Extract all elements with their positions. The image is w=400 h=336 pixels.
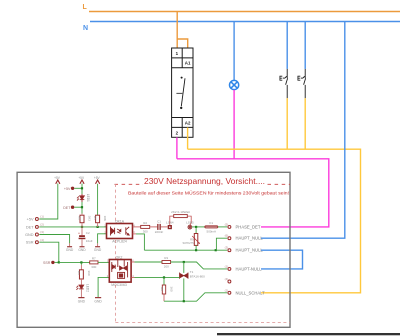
- svg-text:LED2: LED2: [85, 284, 89, 292]
- wire +5V pin to supply: [39, 184, 58, 220]
- switch S2 (taster E): [301, 69, 306, 98]
- svg-text:BTA16-800: BTA16-800: [190, 274, 205, 278]
- supply +5V arrow 2: [80, 180, 84, 184]
- dashed boundary vertical: [114, 184, 116, 323]
- capacitor C2: [81, 227, 83, 235]
- svg-text:+: +: [78, 231, 80, 235]
- ground GND2: [80, 246, 85, 247]
- relay K1 body: [172, 48, 193, 137]
- wire relay A2 to yellow net: [187, 127, 189, 149]
- title dashes left: [115, 183, 144, 185]
- wire N to switch S1: [286, 22, 288, 69]
- wire lamp to magenta net: [233, 90, 235, 159]
- wire R2 to C1: [150, 226, 158, 228]
- svg-text:DET: DET: [26, 225, 34, 229]
- svg-text:A2: A2: [185, 120, 191, 125]
- supply +5V arrow 1: [56, 180, 60, 184]
- junction: [81, 187, 83, 189]
- resistor R8: [163, 277, 165, 285]
- svg-text:N: N: [83, 25, 88, 32]
- svg-text:200: 200: [164, 264, 169, 268]
- resistor R7: [90, 261, 98, 264]
- junction: [215, 249, 217, 251]
- resistor 2K2 0-10Watt loop: [170, 216, 174, 225]
- svg-text:(1): (1): [225, 264, 229, 268]
- svg-text:10K: 10K: [103, 216, 107, 221]
- dashed boundary bottom: [115, 322, 290, 324]
- svg-text:HAUPT-NULL: HAUPT-NULL: [236, 266, 263, 271]
- wire magenta net PHASE_DET: [177, 159, 329, 227]
- svg-text:(3): (3): [225, 246, 229, 250]
- optocoupler OK2: [109, 260, 131, 283]
- svg-text:220nF: 220nF: [155, 230, 164, 234]
- svg-text:T1: T1: [190, 270, 194, 274]
- wire R7 to OK2: [98, 261, 109, 263]
- junction: [97, 226, 99, 228]
- junction: [58, 261, 60, 263]
- svg-text:(5): (5): [225, 222, 229, 226]
- ground GND1: [69, 243, 71, 246]
- wire switch S2 down: [304, 98, 306, 149]
- svg-text:HAUPT_NULL: HAUPT_NULL: [236, 248, 264, 253]
- wire GND pin3: [39, 235, 69, 244]
- wire N to lamp: [233, 22, 235, 81]
- svg-text:360: 360: [87, 271, 91, 276]
- ground GND5: [95, 297, 101, 298]
- wire +5V column: [81, 184, 83, 195]
- svg-text:DET: DET: [63, 206, 71, 210]
- junction: [195, 226, 197, 228]
- connector pin 3: [35, 233, 38, 236]
- svg-text:230V Netzspannung, Vorsicht...: 230V Netzspannung, Vorsicht....: [144, 176, 265, 186]
- svg-text:(4): (4): [225, 277, 229, 281]
- wire L branch to relay A1: [177, 39, 188, 48]
- resistor R5: [96, 215, 100, 223]
- wire relay 2 to magenta net: [176, 137, 178, 159]
- junction: [183, 300, 185, 302]
- svg-text:R8: R8: [160, 287, 164, 291]
- lamp H1: [230, 80, 239, 89]
- junction: [80, 261, 82, 263]
- wire SSR line to R7: [59, 261, 90, 263]
- connector pin PHASE_DET: [228, 225, 231, 228]
- svg-text:SSR: SSR: [43, 261, 51, 265]
- wire N rail: [90, 21, 400, 23]
- svg-text:R2: R2: [143, 221, 147, 225]
- svg-text:MOC3063: MOC3063: [111, 283, 127, 287]
- svg-text:+5V: +5V: [78, 176, 85, 180]
- svg-text:R7: R7: [92, 257, 96, 261]
- svg-text:(1): (1): [40, 215, 44, 219]
- svg-text:PHASE_DET: PHASE_DET: [236, 224, 261, 229]
- svg-text:+5V: +5V: [94, 176, 101, 180]
- svg-text:S07K275: S07K275: [183, 241, 195, 245]
- svg-text:GND: GND: [78, 300, 86, 304]
- svg-text:HAUPT_NULL: HAUPT_NULL: [236, 236, 264, 241]
- LED LED2: [76, 279, 83, 290]
- junction: [81, 206, 83, 208]
- junction: [183, 261, 185, 263]
- svg-text:C1: C1: [157, 220, 161, 224]
- resistor R2: [141, 225, 150, 228]
- connector pin HAUPT_NULL 3: [228, 249, 231, 252]
- svg-text:GND: GND: [94, 248, 102, 252]
- wire LED1 to R6: [81, 202, 83, 214]
- svg-text:500mA: 500mA: [207, 229, 217, 233]
- svg-text:A1: A1: [185, 61, 191, 66]
- fuse F1: [205, 226, 218, 228]
- wire F1 to PHASE_DET pin: [218, 226, 227, 228]
- wire T1 bottom: [183, 278, 185, 301]
- svg-text:R3: R3: [77, 271, 81, 275]
- wire DET line: [39, 226, 106, 228]
- wire yellow net NULL_SCHALT: [188, 149, 361, 293]
- svg-text:3K3: 3K3: [87, 216, 91, 222]
- svg-text:L: L: [83, 4, 88, 11]
- svg-text:300: 300: [91, 265, 96, 269]
- svg-text:LED1: LED1: [86, 194, 90, 202]
- wire LSP5 to F1: [192, 226, 205, 228]
- svg-text:360: 360: [170, 287, 174, 292]
- svg-text:Bauteile auf dieser Seite MÜSS: Bauteile auf dieser Seite MÜSSEN für min…: [128, 189, 289, 195]
- ground GND4: [78, 297, 84, 298]
- connector pin NULL_SCHALT 2: [228, 291, 231, 294]
- svg-text:LSN5: LSN5: [186, 221, 194, 225]
- wire C1 to LSN4: [161, 226, 168, 228]
- svg-text:NULL_SCHALT: NULL_SCHALT: [236, 290, 266, 295]
- junction: [81, 226, 83, 228]
- svg-text:10uF: 10uF: [86, 239, 93, 243]
- svg-text:(6): (6): [225, 234, 229, 238]
- resistor R1: [162, 261, 171, 264]
- svg-text:OK1A: OK1A: [115, 219, 125, 223]
- wire OK1A pin4 to R2: [133, 226, 141, 228]
- title dashes right: [268, 183, 291, 185]
- svg-text:+5V: +5V: [54, 176, 61, 180]
- wire L rail: [89, 11, 400, 13]
- svg-text:(2): (2): [40, 223, 44, 227]
- connector pin 2: [35, 225, 38, 228]
- junction: [195, 249, 197, 251]
- wire switch S1 down: [286, 98, 288, 149]
- wire OK2 pin2 to GND: [98, 277, 109, 297]
- svg-text:(3): (3): [40, 230, 44, 234]
- svg-text:C2: C2: [86, 231, 90, 235]
- svg-text:+5V: +5V: [64, 187, 71, 191]
- svg-text:2K2 0-10Watt: 2K2 0-10Watt: [171, 210, 190, 214]
- wire bottom net to NULL_SCHALT: [164, 293, 227, 301]
- wire +5V to R5: [97, 184, 99, 215]
- LED LED1: [77, 194, 84, 202]
- svg-text:SSR: SSR: [26, 241, 34, 245]
- wire HAUPT_NULL pin6 jog: [216, 238, 227, 250]
- wire OK2 pin6 to R1: [131, 261, 134, 263]
- svg-text:OK2: OK2: [116, 255, 123, 259]
- switch S1 (taster E): [283, 69, 288, 98]
- svg-text:300: 300: [143, 229, 148, 233]
- svg-text:GND: GND: [25, 233, 34, 237]
- wire L to relay pin 1: [176, 12, 178, 49]
- capacitor C1: [157, 224, 158, 230]
- svg-text:GND: GND: [78, 248, 86, 252]
- connector pin 1: [35, 218, 38, 221]
- connector pin 4 spare: [228, 280, 231, 283]
- wire net HAUPT_NULL horizontal: [144, 249, 227, 251]
- wire N to HAUPT_NULL: [261, 22, 345, 239]
- wire blue HAUPT_NULL loop: [261, 250, 303, 269]
- relay contact switch: [181, 77, 183, 79]
- svg-text:F1: F1: [210, 221, 214, 225]
- connector pin 4: [35, 241, 38, 244]
- svg-text:GND: GND: [66, 248, 74, 252]
- svg-text:R6: R6: [78, 216, 82, 220]
- junction: [163, 276, 165, 278]
- triac T1: [180, 273, 188, 279]
- supply +5V arrow 3: [96, 180, 100, 184]
- svg-text:R5: R5: [93, 216, 97, 220]
- wire OK2 pin4 to gate: [131, 276, 134, 278]
- optocoupler OK1A: [107, 224, 133, 239]
- svg-text:ACPL824: ACPL824: [112, 240, 127, 244]
- bottom frame line: [217, 333, 400, 335]
- wire junction to T1: [183, 262, 185, 273]
- wire N to switch S2: [304, 22, 306, 69]
- svg-text:(4): (4): [40, 238, 44, 242]
- box 230V section frame: [17, 172, 290, 327]
- svg-text:(2): (2): [225, 288, 229, 292]
- svg-text:+5V: +5V: [27, 218, 34, 222]
- svg-text:GND: GND: [94, 300, 102, 304]
- wire OK1A pin3 down: [136, 234, 144, 250]
- connector pin HAUPT_NULL 6: [228, 237, 231, 240]
- varistor R9: [195, 227, 197, 234]
- wire SSR pin4: [39, 242, 59, 262]
- resistor R6: [80, 215, 84, 223]
- svg-text:R1: R1: [164, 256, 168, 260]
- wire R1 to junction and HAUPT-NULL pin: [171, 262, 228, 269]
- ground GND3: [97, 243, 99, 246]
- resistor R3: [80, 262, 82, 264]
- wire OK1A pin2 to GND: [98, 234, 107, 244]
- connector pin HAUPT-NULL 1: [228, 267, 231, 270]
